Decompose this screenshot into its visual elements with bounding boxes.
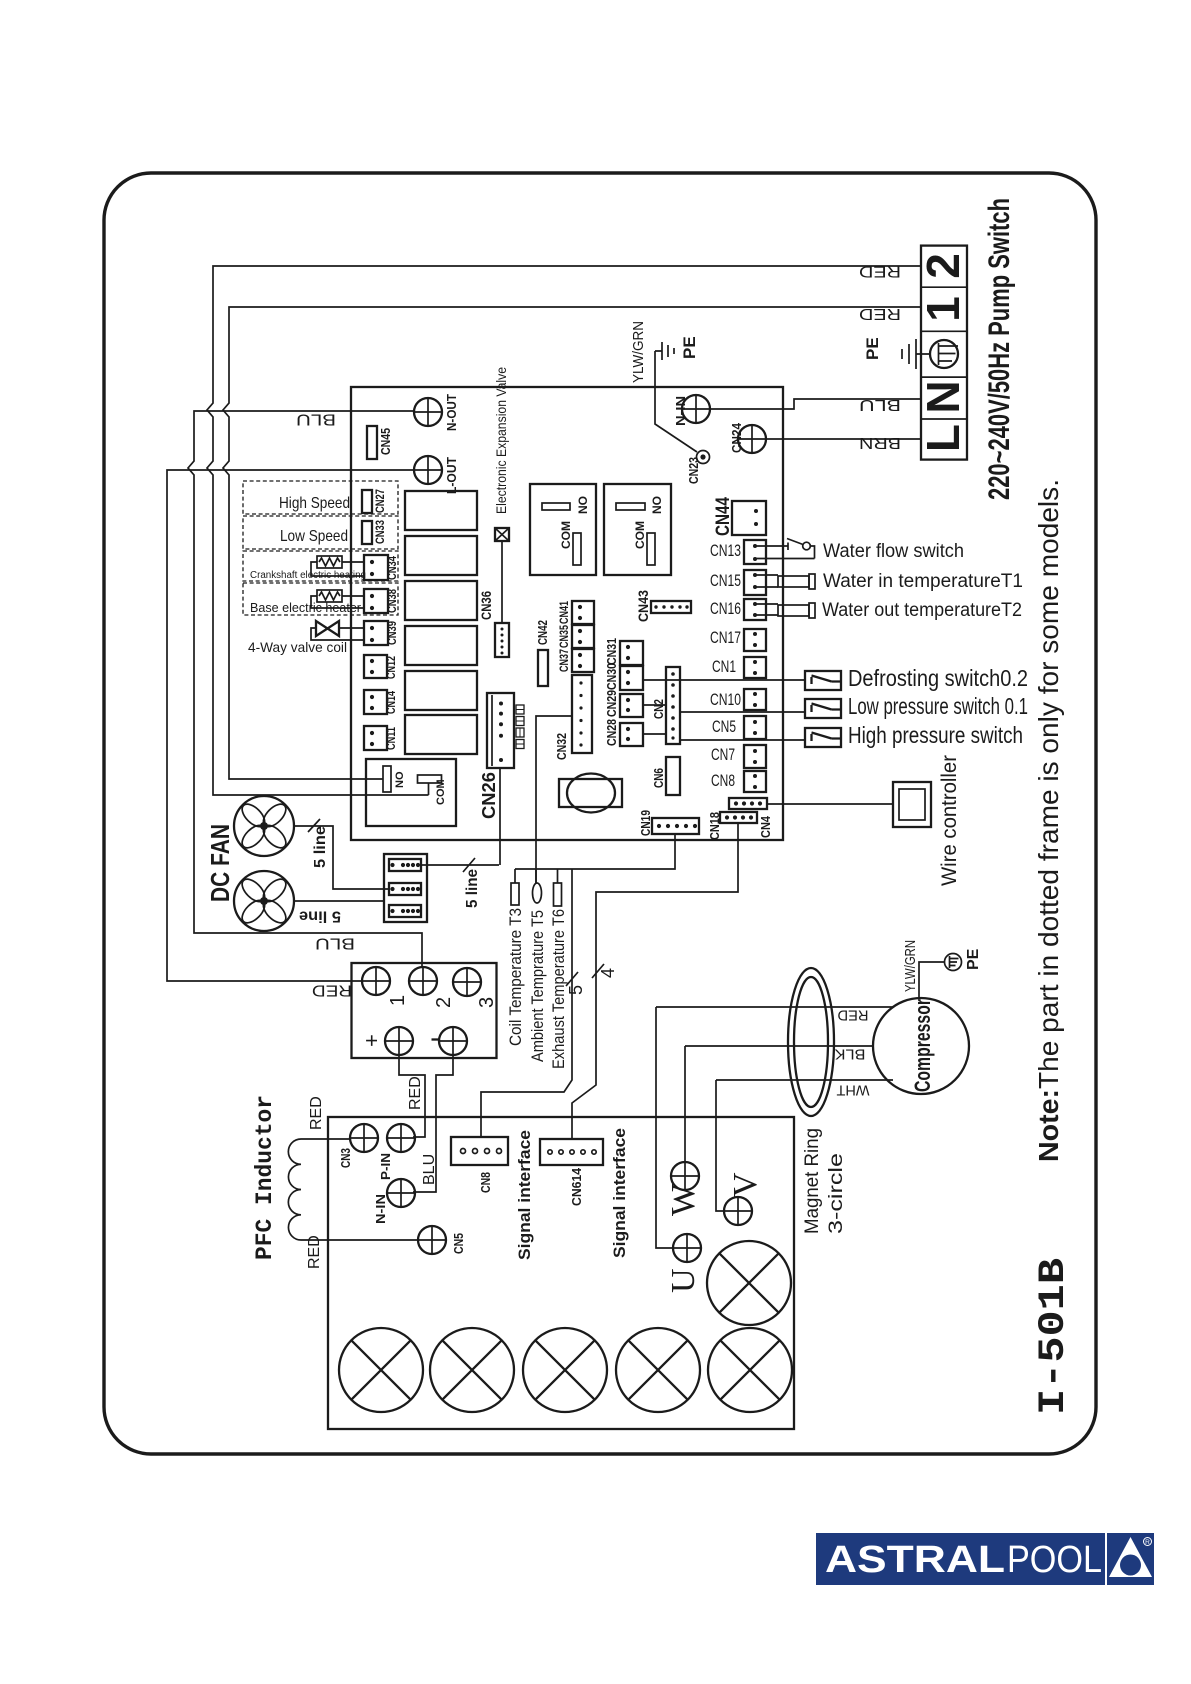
svg-text:2: 2 — [917, 253, 969, 279]
svg-text:CN1: CN1 — [712, 657, 736, 676]
svg-text:Magnet Ring: Magnet Ring — [802, 1128, 823, 1234]
svg-text:CN614: CN614 — [569, 1167, 584, 1206]
svg-text:CN35: CN35 — [557, 625, 571, 648]
svg-text:CN16: CN16 — [710, 599, 741, 618]
svg-text:CN11: CN11 — [384, 727, 398, 750]
svg-text:CN37: CN37 — [557, 649, 571, 672]
svg-text:CN19: CN19 — [638, 810, 653, 836]
svg-text:5 line: 5 line — [299, 908, 341, 925]
svg-text:N-IN: N-IN — [673, 396, 688, 426]
svg-text:PE: PE — [863, 337, 882, 360]
svg-text:CN28: CN28 — [605, 719, 619, 746]
svg-text:3: 3 — [476, 997, 498, 1008]
svg-text:NO: NO — [650, 496, 664, 514]
svg-text:PE: PE — [965, 948, 982, 970]
svg-text:RED: RED — [859, 263, 901, 280]
svg-text:Wire controller: Wire controller — [938, 755, 961, 886]
svg-text:Compressor: Compressor — [910, 999, 935, 1092]
svg-text:I-501B: I-501B — [1033, 1258, 1075, 1415]
svg-text:BLU: BLU — [421, 1154, 438, 1185]
svg-text:High Speed: High Speed — [279, 495, 350, 512]
svg-text:NO: NO — [394, 771, 406, 788]
svg-text:CN4: CN4 — [758, 815, 773, 838]
svg-text:W: W — [665, 1183, 702, 1216]
svg-text:CN41: CN41 — [557, 601, 571, 624]
svg-text:Signal interface: Signal interface — [610, 1128, 629, 1258]
svg-text:Water flow switch: Water flow switch — [823, 541, 964, 562]
svg-text:Coil Temperature T3: Coil Temperature T3 — [506, 908, 525, 1046]
svg-text:CN5: CN5 — [712, 717, 736, 736]
svg-text:CN32: CN32 — [555, 733, 569, 760]
svg-text:CN30: CN30 — [605, 663, 619, 690]
svg-text:BLK: BLK — [835, 1046, 866, 1063]
svg-text:2: 2 — [433, 997, 455, 1008]
svg-text:COM: COM — [559, 521, 573, 549]
svg-text:RED: RED — [312, 982, 352, 999]
svg-text:WHT: WHT — [837, 1082, 870, 1099]
svg-text:CN31: CN31 — [605, 638, 619, 665]
svg-text:+: + — [359, 1034, 384, 1047]
svg-text:CN29: CN29 — [605, 690, 619, 717]
svg-text:5: 5 — [566, 985, 586, 995]
svg-text:DC FAN: DC FAN — [205, 824, 235, 902]
svg-text:CN17: CN17 — [710, 628, 741, 647]
svg-text:CN13: CN13 — [710, 541, 741, 560]
svg-text:N-OUT: N-OUT — [444, 394, 459, 431]
svg-text:CN24: CN24 — [729, 422, 744, 453]
svg-text:POOL: POOL — [1007, 1539, 1102, 1581]
svg-text:Electronic Expansion Valve: Electronic Expansion Valve — [493, 367, 509, 514]
svg-text:Ambient Temprature T5: Ambient Temprature T5 — [528, 910, 547, 1062]
svg-text:CN6: CN6 — [652, 768, 666, 788]
svg-text:CN27: CN27 — [373, 489, 387, 513]
svg-text:RED: RED — [306, 1235, 323, 1269]
svg-text:5 line: 5 line — [312, 826, 329, 868]
svg-text:CN23: CN23 — [687, 457, 701, 484]
svg-text:P-IN: P-IN — [379, 1153, 393, 1180]
svg-text:RED: RED — [837, 1007, 868, 1024]
svg-text:CN10: CN10 — [710, 690, 741, 709]
svg-text:CN44: CN44 — [713, 497, 734, 536]
svg-text:5 line: 5 line — [464, 869, 481, 908]
svg-text:RED: RED — [407, 1076, 424, 1110]
svg-text:High pressure switch: High pressure switch — [848, 722, 1023, 748]
svg-text:1: 1 — [917, 296, 969, 322]
svg-text:PE: PE — [680, 336, 699, 359]
svg-text:Water out temperatureT2: Water out temperatureT2 — [822, 600, 1022, 621]
svg-text:CN15: CN15 — [710, 571, 741, 590]
svg-text:YLW/GRN: YLW/GRN — [630, 321, 647, 383]
svg-text:NO: NO — [576, 496, 590, 514]
svg-text:CN45: CN45 — [379, 428, 393, 455]
svg-text:1: 1 — [387, 995, 409, 1006]
svg-text:CN39: CN39 — [385, 621, 399, 645]
svg-text:4: 4 — [598, 968, 618, 978]
svg-text:4-Way valve coil: 4-Way valve coil — [248, 639, 347, 655]
svg-text:L-OUT: L-OUT — [444, 457, 459, 494]
svg-text:3-circle: 3-circle — [826, 1153, 847, 1234]
svg-text:CN8: CN8 — [478, 1172, 493, 1193]
svg-text:L: L — [917, 424, 969, 452]
svg-text:CN36: CN36 — [478, 591, 494, 620]
svg-text:CN43: CN43 — [635, 590, 651, 622]
svg-text:CN12: CN12 — [384, 656, 398, 679]
svg-text:BLU: BLU — [315, 935, 355, 952]
svg-text:RED: RED — [308, 1096, 325, 1130]
svg-text:CN42: CN42 — [536, 620, 550, 645]
svg-text:Water in temperatureT1: Water in temperatureT1 — [823, 571, 1023, 592]
svg-text:CN7: CN7 — [711, 745, 735, 764]
svg-text:CN38: CN38 — [385, 589, 399, 613]
svg-text:N-IN: N-IN — [374, 1194, 388, 1224]
svg-text:CN14: CN14 — [384, 691, 398, 714]
svg-text:BRN: BRN — [859, 434, 901, 451]
svg-text:CN33: CN33 — [373, 520, 387, 544]
svg-text:Signal interface: Signal interface — [515, 1130, 534, 1260]
svg-text:BLU: BLU — [296, 411, 336, 428]
svg-text:CN34: CN34 — [385, 556, 399, 580]
svg-text:220~240V/50Hz Pump Switch: 220~240V/50Hz Pump Switch — [983, 198, 1016, 500]
svg-text:CN8: CN8 — [711, 771, 735, 790]
svg-text:Low Speed: Low Speed — [280, 528, 348, 545]
svg-text:COM: COM — [633, 521, 647, 549]
svg-text:CN26: CN26 — [479, 772, 499, 819]
svg-text:Low pressure switch 0.1: Low pressure switch 0.1 — [848, 693, 1028, 719]
svg-text:Defrosting switch0.2: Defrosting switch0.2 — [848, 665, 1028, 691]
svg-text:V: V — [727, 1172, 764, 1197]
svg-text:ASTRAL: ASTRAL — [825, 1539, 1005, 1581]
svg-text:COM: COM — [435, 779, 447, 805]
svg-text:YLW/GRN: YLW/GRN — [902, 940, 919, 992]
svg-text:PFC Inductor: PFC Inductor — [252, 1095, 278, 1260]
svg-text:N: N — [917, 380, 969, 413]
svg-text:CN5: CN5 — [452, 1233, 466, 1254]
svg-text:CN3: CN3 — [339, 1148, 353, 1168]
svg-text:CN18: CN18 — [707, 812, 722, 840]
svg-text:U: U — [665, 1268, 702, 1293]
svg-text:CN2: CN2 — [652, 699, 666, 719]
svg-text:R: R — [1145, 1539, 1150, 1546]
svg-text:Note:The part in dotted frame: Note:The part in dotted frame is only fo… — [1033, 479, 1064, 1162]
